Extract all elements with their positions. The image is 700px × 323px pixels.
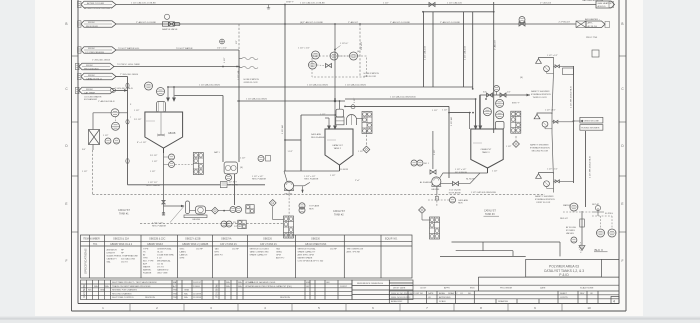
svg-text:REFERENCE DRAWINGS: REFERENCE DRAWINGS bbox=[357, 282, 384, 285]
svg-text:2"-AB-107-1.0 BLBK: 2"-AB-107-1.0 BLBK bbox=[136, 21, 157, 24]
svg-text:FROM: FROM bbox=[88, 75, 95, 77]
svg-text:APPROVED: APPROVED bbox=[439, 296, 451, 299]
svg-text:GASKETED: GASKETED bbox=[157, 269, 169, 272]
svg-text:HOSE STATION: HOSE STATION bbox=[244, 78, 260, 81]
svg-text:3/4"x1/2": 3/4"x1/2" bbox=[361, 41, 363, 50]
svg-text:REG. FLANGE: REG. FLANGE bbox=[146, 184, 161, 187]
svg-text:SPARE CAPACITY: SPARE CAPACITY bbox=[250, 254, 268, 257]
svg-text:WATER: WATER bbox=[143, 266, 151, 269]
svg-text:150 TO: 150 TO bbox=[121, 262, 128, 264]
svg-text:NO FLANGE: NO FLANGE bbox=[449, 192, 462, 195]
svg-text:10: 10 bbox=[587, 306, 591, 310]
svg-text:2"-AB-107-1.0 BLBK: 2"-AB-107-1.0 BLBK bbox=[390, 21, 411, 24]
svg-text:REVISION: REVISION bbox=[280, 297, 290, 299]
svg-text:AT WING W3 LINE: AT WING W3 LINE bbox=[581, 119, 599, 122]
svg-text:FROM: FROM bbox=[86, 65, 93, 67]
svg-text:BLK. TYPE: BLK. TYPE bbox=[143, 261, 154, 263]
svg-text:BY PASS: BY PASS bbox=[566, 229, 575, 232]
svg-text:1 1/2" x 1/2": 1 1/2" x 1/2" bbox=[298, 47, 310, 49]
svg-text:1 1/2"-AB-104-1SB-N1500: 1 1/2"-AB-104-1SB-N1500 bbox=[390, 96, 416, 99]
svg-text:DRAW BY: DRAW BY bbox=[448, 292, 458, 295]
svg-text:N/A: N/A bbox=[184, 292, 188, 295]
svg-text:150 HP: 150 HP bbox=[232, 249, 240, 251]
svg-text:N/A: N/A bbox=[226, 281, 230, 284]
svg-text:VALVES: VALVES bbox=[566, 232, 574, 235]
svg-text:CONT'D: CONT'D bbox=[560, 297, 568, 299]
svg-text:1/2": 1/2" bbox=[507, 91, 511, 93]
svg-text:AIR HEATER +: AIR HEATER + bbox=[585, 18, 601, 21]
svg-text:TMS: TMS bbox=[173, 290, 178, 292]
svg-text:AGITATOR: AGITATOR bbox=[107, 249, 118, 252]
svg-text:SERVICE TK2/GAL: SERVICE TK2/GAL bbox=[298, 248, 317, 251]
svg-text:CO: CO bbox=[460, 293, 464, 295]
svg-text:GB02B: GB02B bbox=[168, 133, 176, 135]
svg-text:1/2 AB RISE MPA: 1/2 AB RISE MPA bbox=[157, 254, 174, 257]
svg-text:GB0226: GB0226 bbox=[263, 238, 272, 241]
svg-text:4: 4 bbox=[613, 299, 615, 303]
svg-text:EXCHANGER: EXCHANGER bbox=[84, 98, 98, 101]
svg-text:GRND FLOOR: GRND FLOOR bbox=[244, 82, 258, 84]
svg-text:REVISION: REVISION bbox=[214, 285, 218, 298]
svg-text:LABELS: LABELS bbox=[180, 254, 188, 257]
svg-text:1/2": 1/2" bbox=[236, 40, 238, 44]
svg-text:CAPACITY: CAPACITY bbox=[107, 258, 118, 261]
svg-text:ANTI FO: ANTI FO bbox=[215, 254, 224, 257]
svg-text:DATE: DATE bbox=[540, 287, 546, 290]
svg-text:1 1/2": 1 1/2" bbox=[82, 171, 88, 173]
svg-text:SAFETY SHOWER/: SAFETY SHOWER/ bbox=[530, 143, 549, 146]
svg-text:EYEWASH STATION: EYEWASH STATION bbox=[531, 93, 551, 96]
svg-text:1 1/2"-AB: 1 1/2"-AB bbox=[281, 125, 284, 134]
svg-text:GAS HEATER A LINE: GAS HEATER A LINE bbox=[582, 0, 604, 2]
svg-text:(E): (E) bbox=[357, 51, 360, 53]
svg-text:EYEWASH STATION: EYEWASH STATION bbox=[530, 146, 550, 149]
svg-text:1 1/2"-AB: 1 1/2"-AB bbox=[237, 70, 240, 80]
svg-text:SAFETY SHOWER/: SAFETY SHOWER/ bbox=[531, 90, 550, 93]
svg-text:P-1 1/2": P-1 1/2" bbox=[134, 119, 142, 121]
svg-text:1 1/2" x 1/2": 1 1/2" x 1/2" bbox=[152, 223, 163, 225]
svg-text:GB02B6: GB02B6 bbox=[431, 189, 440, 191]
svg-text:THE OVERFLOW: THE OVERFLOW bbox=[347, 249, 364, 251]
svg-text:SHEET: SHEET bbox=[560, 293, 568, 295]
svg-text:11/13/98: 11/13/98 bbox=[193, 297, 202, 299]
svg-text:SAFETY SHOWER/: SAFETY SHOWER/ bbox=[535, 195, 554, 198]
svg-text:FROM: FROM bbox=[86, 89, 93, 91]
svg-text:TANK CONNECTED: TANK CONNECTED bbox=[250, 251, 270, 254]
svg-text:REG. FLANGE: REG. FLANGE bbox=[252, 177, 267, 180]
svg-text:EYEWASH STATION: EYEWASH STATION bbox=[535, 198, 555, 201]
svg-text:UPDATED AS NOTED PIPING & CATA: UPDATED AS NOTED PIPING & CATALYST (P&I) bbox=[245, 285, 292, 288]
svg-text:BARREL: BARREL bbox=[143, 269, 152, 272]
svg-text:N/A: N/A bbox=[184, 296, 188, 299]
svg-text:2"-AB-107-1.0 BLBK: 2"-AB-107-1.0 BLBK bbox=[440, 21, 461, 24]
svg-text:N/A: N/A bbox=[94, 285, 98, 288]
svg-text:ANTI. TPS RE: ANTI. TPS RE bbox=[347, 251, 361, 254]
svg-text:NO FLANGE: NO FLANGE bbox=[455, 171, 468, 174]
svg-text:N/A: N/A bbox=[238, 281, 242, 284]
svg-text:1 1/2"-AB-104-1SB-N: 1 1/2"-AB-104-1SB-N bbox=[307, 83, 328, 86]
svg-text:GB022B & 22C: GB022B & 22C bbox=[149, 238, 166, 241]
svg-text:AT FLUSH: AT FLUSH bbox=[566, 226, 576, 229]
svg-text:GLASS PRESS. TEMPERATURE: GLASS PRESS. TEMPERATURE bbox=[107, 255, 139, 258]
svg-text:TMS: TMS bbox=[173, 293, 178, 295]
svg-text:GPM: GPM bbox=[180, 258, 185, 260]
svg-text:APPR: APPR bbox=[444, 287, 450, 290]
svg-text:1 1/2"-AB-106-1SB-N: 1 1/2"-AB-106-1SB-N bbox=[199, 83, 220, 86]
svg-text:AFTER COOLER: AFTER COOLER bbox=[87, 2, 104, 5]
svg-text:2"-AB-107: 2"-AB-107 bbox=[348, 21, 359, 24]
svg-text:7"-WG-300-1SB-N: 7"-WG-300-1SB-N bbox=[115, 88, 133, 90]
svg-text:A BLDG: A BLDG bbox=[598, 5, 606, 8]
svg-text:WATER: WATER bbox=[563, 204, 571, 207]
svg-text:150 HP: 150 HP bbox=[330, 249, 338, 251]
svg-text:150 HP: 150 HP bbox=[196, 249, 204, 251]
svg-text:GMA: GMA bbox=[184, 289, 189, 292]
svg-text:1"-AB-106-1SB-N: 1"-AB-106-1SB-N bbox=[98, 100, 115, 103]
svg-text:DWG. NO/CON RVC: DWG. NO/CON RVC bbox=[391, 297, 411, 299]
svg-text:2/14/00: 2/14/00 bbox=[193, 286, 201, 288]
svg-text:2"-AB-107-1.0 BLBK: 2"-AB-107-1.0 BLBK bbox=[303, 21, 324, 24]
svg-text:REG. FLANGE: REG. FLANGE bbox=[152, 224, 167, 227]
svg-text:THIRD FLOOR: THIRD FLOOR bbox=[533, 97, 548, 99]
svg-text:N/S: N/S bbox=[88, 290, 92, 292]
svg-text:CATALYST: CATALYST bbox=[332, 144, 343, 147]
svg-text:HDR: HDR bbox=[458, 203, 463, 205]
svg-text:60 PSIG: 60 PSIG bbox=[605, 213, 613, 215]
svg-text:AC BLDG: AC BLDG bbox=[588, 25, 598, 28]
svg-text:TANK #1: TANK #1 bbox=[119, 212, 129, 215]
svg-text:CAT 2 TANK #1: CAT 2 TANK #1 bbox=[220, 243, 237, 246]
svg-text:GB02B TANK #1 & 2: GB02B TANK #1 & 2 bbox=[110, 243, 133, 246]
svg-text:TO PROC. HDG. TANK: TO PROC. HDG. TANK bbox=[117, 63, 140, 66]
svg-text:TK1: TK1 bbox=[93, 243, 98, 246]
svg-text:CK BY: CK BY bbox=[420, 288, 427, 290]
svg-text:DATE: DATE bbox=[428, 292, 434, 295]
svg-text:GB02B TANK 2 | GB02B: GB02B TANK 2 | GB02B bbox=[182, 243, 209, 246]
svg-text:FROM: FROM bbox=[88, 48, 95, 50]
svg-text:1 1/2": 1 1/2" bbox=[330, 175, 336, 177]
svg-text:FIRST FLOOR: FIRST FLOOR bbox=[537, 202, 551, 204]
svg-text:SCALE: SCALE bbox=[439, 300, 446, 303]
svg-text:BTM "Y": BTM "Y" bbox=[512, 103, 520, 105]
svg-text:CA FLARE: CA FLARE bbox=[458, 199, 469, 202]
svg-text:RE BOILER: RE BOILER bbox=[86, 26, 98, 28]
svg-text:1/4" x 1/2": 1/4" x 1/2" bbox=[217, 47, 227, 49]
svg-text:BTM "Y": BTM "Y" bbox=[286, 1, 294, 3]
svg-text:1 1/2": 1 1/2" bbox=[320, 114, 326, 116]
svg-text:1 1/2": 1 1/2" bbox=[383, 2, 389, 4]
svg-text:1 1/2"x1": 1 1/2"x1" bbox=[340, 43, 349, 45]
svg-text:TANK #3: TANK #3 bbox=[485, 213, 495, 216]
svg-text:TAG: TAG bbox=[215, 248, 220, 251]
svg-text:GM: GM bbox=[326, 282, 330, 284]
svg-text:1 1/2" x 1/2": 1 1/2" x 1/2" bbox=[547, 169, 558, 171]
svg-text:COG GP AVG A GP TO 300: COG GP AVG A GP TO 300 bbox=[298, 260, 325, 263]
svg-text:2"-PVB-107: 2"-PVB-107 bbox=[559, 21, 571, 23]
svg-text:PROC TNK: PROC TNK bbox=[586, 37, 598, 39]
svg-text:1 1/2"-CAT-105: 1 1/2"-CAT-105 bbox=[447, 1, 463, 4]
svg-text:TYPE: TYPE bbox=[143, 249, 149, 251]
svg-text:SHUT DWN CONTROL: SHUT DWN CONTROL bbox=[112, 297, 135, 299]
svg-text:1 1/2"-CAT-105-1.5 BLBK: 1 1/2"-CAT-105-1.5 BLBK bbox=[131, 1, 156, 4]
svg-text:1 1/2" 1/2": 1 1/2" 1/2" bbox=[148, 182, 158, 184]
svg-text:GMC: GMC bbox=[180, 249, 185, 251]
svg-text:AREA 03/02: AREA 03/02 bbox=[391, 300, 403, 303]
svg-text:RED HT: RED HT bbox=[560, 218, 568, 220]
svg-text:(E): (E) bbox=[240, 167, 243, 169]
svg-text:1 1/2": 1 1/2" bbox=[434, 149, 436, 155]
svg-text:GB023YA: GB023YA bbox=[221, 238, 232, 241]
svg-text:TO FLARE: TO FLARE bbox=[309, 205, 320, 208]
svg-text:TO HOT WATER H.B.: TO HOT WATER H.B. bbox=[118, 47, 140, 50]
svg-text:TMS: TMS bbox=[173, 297, 178, 299]
svg-text:(E): (E) bbox=[520, 77, 523, 79]
svg-text:TO HOT WATER: TO HOT WATER bbox=[176, 47, 193, 50]
svg-text:NAT 1: NAT 1 bbox=[214, 151, 221, 154]
svg-text:1 1/2": 1 1/2" bbox=[240, 158, 246, 160]
svg-text:CAT 2 TANK #1: CAT 2 TANK #1 bbox=[260, 243, 277, 246]
svg-text:REG. FLANGE: REG. FLANGE bbox=[304, 177, 319, 180]
svg-text:P-1 1/2": P-1 1/2" bbox=[150, 155, 158, 157]
svg-text:AREA: AREA bbox=[439, 292, 445, 295]
svg-text:1 1/2"-AB: 1 1/2"-AB bbox=[450, 117, 453, 126]
svg-text:AFTL: AFTL bbox=[588, 22, 594, 25]
svg-text:1 1/2": 1 1/2" bbox=[506, 146, 512, 148]
svg-text:GMA: GMA bbox=[100, 289, 105, 292]
svg-text:3/4": 3/4" bbox=[82, 149, 86, 151]
svg-text:AT 15 PSI: AT 15 PSI bbox=[229, 183, 239, 186]
svg-text:500 GALLONS: 500 GALLONS bbox=[121, 258, 135, 261]
svg-text:SECOND FLOOR: SECOND FLOOR bbox=[532, 150, 549, 152]
svg-text:8" x 1 1/2": 8" x 1 1/2" bbox=[137, 142, 147, 144]
svg-text:1 1/2": 1 1/2" bbox=[150, 171, 156, 173]
svg-text:FROM: FROM bbox=[88, 22, 95, 24]
svg-text:1 1/2"-AB-104: 1 1/2"-AB-104 bbox=[464, 46, 467, 60]
svg-text:WATER SPARE: WATER SPARE bbox=[298, 257, 313, 260]
svg-text:ONLY ONE: ONLY ONE bbox=[157, 273, 168, 275]
svg-text:DR BY DATE: DR BY DATE bbox=[393, 287, 406, 290]
svg-text:E: E bbox=[65, 202, 67, 206]
svg-text:3/4": 3/4" bbox=[483, 91, 487, 93]
svg-text:11/13/98: 11/13/98 bbox=[193, 293, 202, 295]
svg-text:1 1/2": 1 1/2" bbox=[103, 135, 109, 137]
svg-text:TANK 2: TANK 2 bbox=[334, 147, 342, 150]
svg-text:NO 1: NO 1 bbox=[424, 163, 430, 165]
svg-text:1 1/2": 1 1/2" bbox=[224, 57, 226, 63]
svg-text:HOSING SHOWER: HOSING SHOWER bbox=[581, 128, 600, 130]
svg-text:ANTI SPEC GPM: ANTI SPEC GPM bbox=[298, 254, 315, 257]
svg-text:TPM: TPM bbox=[143, 258, 148, 260]
svg-text:GB0230: GB0230 bbox=[311, 238, 320, 241]
svg-text:HOSE STATION: HOSE STATION bbox=[364, 72, 380, 75]
svg-text:TAG: TAG bbox=[276, 248, 281, 251]
svg-text:1 1/2" x 1/2": 1 1/2" x 1/2" bbox=[547, 55, 558, 57]
svg-text:CO 30: CO 30 bbox=[157, 264, 164, 266]
svg-text:N/A: N/A bbox=[238, 285, 242, 288]
svg-text:SPECIFICATIONS: SPECIFICATIONS bbox=[84, 248, 88, 274]
svg-text:1 1/2"-AB-104: 1 1/2"-AB-104 bbox=[424, 46, 427, 60]
svg-text:HDR: HDR bbox=[309, 208, 314, 210]
svg-text:GB02B TANK3: GB02B TANK3 bbox=[147, 243, 164, 246]
svg-text:MSK: MSK bbox=[306, 282, 311, 284]
svg-text:EQUIP. NO.: EQUIP. NO. bbox=[385, 238, 398, 241]
svg-text:1 1/2": 1 1/2" bbox=[358, 151, 364, 153]
svg-text:BLK X: BLK X bbox=[595, 248, 604, 252]
svg-text:COOLING WATER: COOLING WATER bbox=[84, 96, 102, 99]
svg-text:DRAWING: DRAWING bbox=[498, 300, 508, 303]
svg-text:SHUT TANK PROJECT - TEST VALVE: SHUT TANK PROJECT - TEST VALVE REVIEW bbox=[112, 281, 157, 284]
svg-text:ENG: ENG bbox=[470, 288, 475, 290]
svg-text:1 1/2": 1 1/2" bbox=[134, 110, 140, 112]
svg-text:175 TO: 175 TO bbox=[157, 267, 164, 269]
svg-text:1 1/2"-WF-0306-1SB-N: 1 1/2"-WF-0306-1SB-N bbox=[571, 86, 573, 108]
svg-text:SCALE NONE: SCALE NONE bbox=[580, 287, 594, 290]
svg-text:SPARE CAPACITY: SPARE CAPACITY bbox=[298, 251, 316, 254]
svg-text:GAS HEATER: GAS HEATER bbox=[598, 2, 612, 5]
svg-text:10/9/97: 10/9/97 bbox=[340, 286, 348, 288]
svg-text:1 1/2": 1 1/2" bbox=[442, 110, 448, 112]
svg-text:PROCESSING: PROCESSING bbox=[84, 68, 99, 70]
svg-text:REV: REV bbox=[580, 293, 585, 295]
svg-text:1"-WG-300-1SB-N: 1"-WG-300-1SB-N bbox=[92, 59, 110, 61]
svg-text:1 1/2": 1 1/2" bbox=[288, 151, 294, 153]
svg-text:10/12/97: 10/12/97 bbox=[193, 282, 202, 284]
svg-text:F: F bbox=[622, 259, 624, 263]
svg-text:TANK 3: TANK 3 bbox=[482, 151, 490, 154]
svg-text:MECHANICAL: MECHANICAL bbox=[157, 260, 171, 263]
svg-text:C.T. PROCESSING: C.T. PROCESSING bbox=[85, 52, 104, 54]
svg-text:B: B bbox=[621, 22, 623, 26]
svg-text:REG FLANGE: REG FLANGE bbox=[311, 136, 325, 139]
svg-text:CATALYST: CATALYST bbox=[481, 148, 492, 151]
svg-text:2"-AB-107: 2"-AB-107 bbox=[494, 39, 497, 50]
svg-text:1 1/2": 1 1/2" bbox=[354, 97, 356, 103]
svg-text:N/A: N/A bbox=[226, 285, 230, 288]
svg-text:1 1/2"-CAT-105-1.5 BLBK: 1 1/2"-CAT-105-1.5 BLBK bbox=[300, 1, 325, 4]
svg-text:1/2" SET: 1/2" SET bbox=[229, 182, 238, 184]
svg-text:TRACE ON VENT TANK AND PROCESS: TRACE ON VENT TANK AND PROCESS bbox=[112, 285, 151, 288]
svg-text:PROJ ENGR: PROJ ENGR bbox=[500, 288, 513, 290]
svg-text:SAMPLE VALVE: SAMPLE VALVE bbox=[162, 28, 178, 31]
svg-text:NPS: NPS bbox=[215, 252, 220, 254]
svg-text:GPM: GPM bbox=[276, 255, 281, 257]
svg-text:1 1/2" x 1/2": 1 1/2" x 1/2" bbox=[545, 110, 556, 112]
svg-text:GB 02 CHEM TANK: GB 02 CHEM TANK bbox=[305, 243, 327, 246]
svg-text:N/A: N/A bbox=[105, 285, 109, 288]
svg-text:REVISED FOR CHANGES: REVISED FOR CHANGES bbox=[112, 289, 138, 292]
svg-text:CATALYST M.U.: CATALYST M.U. bbox=[86, 77, 102, 80]
svg-text:1 1/2"-AB-104-1SB-N: 1 1/2"-AB-104-1SB-N bbox=[246, 98, 267, 101]
svg-text:1 1/2": 1 1/2" bbox=[152, 161, 158, 163]
svg-text:REVISION: REVISION bbox=[145, 297, 155, 299]
svg-text:ANTI FO: ANTI FO bbox=[276, 257, 285, 260]
svg-text:E: E bbox=[621, 202, 623, 206]
svg-text:10 NOW: 10 NOW bbox=[340, 169, 348, 171]
svg-text:CENTRIFUGAL: CENTRIFUGAL bbox=[157, 248, 173, 251]
svg-text:SET AT: SET AT bbox=[592, 203, 600, 206]
svg-text:A.T.: A.T. bbox=[173, 285, 177, 288]
svg-text:GB02B4: GB02B4 bbox=[192, 219, 201, 221]
svg-text:GB022Y &22B: GB022Y &22B bbox=[185, 238, 201, 241]
svg-text:1 1/2"-AB-104-1SB-N: 1 1/2"-AB-104-1SB-N bbox=[345, 83, 366, 86]
svg-text:LABEL: LABEL bbox=[180, 251, 187, 254]
svg-text:AL FLANGE: AL FLANGE bbox=[420, 181, 432, 184]
svg-text:7"-WG-300-1SB-N: 7"-WG-300-1SB-N bbox=[120, 74, 138, 76]
svg-text:1 1/2": 1 1/2" bbox=[432, 110, 438, 112]
svg-text:LENGTH: LENGTH bbox=[107, 253, 116, 255]
svg-text:2"x1": 2"x1" bbox=[355, 180, 360, 182]
svg-text:1 1/2" x 1/2": 1 1/2" x 1/2" bbox=[455, 169, 466, 171]
svg-text:GB0225 & 22A: GB0225 & 22A bbox=[113, 238, 129, 241]
svg-text:REVISION: REVISION bbox=[82, 285, 86, 298]
svg-text:JM: JM bbox=[306, 286, 309, 288]
svg-text:P & ID: P & ID bbox=[559, 273, 569, 277]
svg-text:MAT: MAT bbox=[173, 281, 178, 284]
svg-text:TANK #2: TANK #2 bbox=[334, 213, 344, 216]
svg-text:FLANGE: FLANGE bbox=[143, 272, 152, 275]
svg-text:CAT. PREP: CAT. PREP bbox=[84, 91, 96, 94]
svg-text:AFTERCOOLER CHILLER 2: AFTERCOOLER CHILLER 2 bbox=[84, 7, 113, 10]
svg-text:AXP: AXP bbox=[143, 263, 148, 266]
svg-text:DA FLARE: DA FLARE bbox=[311, 133, 322, 136]
svg-text:RECORD DRAWING: RECORD DRAWING bbox=[112, 292, 132, 295]
svg-text:DWG SC NO PROJ NO CONT N: DWG SC NO PROJ NO CONT NO bbox=[391, 293, 424, 295]
svg-text:GRD FLOOR: GRD FLOOR bbox=[364, 76, 377, 78]
svg-text:1 1/2 LIQUID: 1 1/2 LIQUID bbox=[449, 190, 462, 192]
svg-text:GL-50: GL-50 bbox=[157, 252, 164, 254]
svg-text:1 1/2": 1 1/2" bbox=[492, 171, 498, 173]
svg-text:NL NOW: NL NOW bbox=[466, 179, 474, 181]
svg-text:GB02B5: GB02B5 bbox=[284, 193, 293, 195]
svg-text:SERVICE COOLING: SERVICE COOLING bbox=[250, 249, 270, 251]
svg-text:1 1/2"-CAT-103-1SB-N1SB: 1 1/2"-CAT-103-1SB-N1SB bbox=[471, 191, 496, 194]
svg-text:B: B bbox=[65, 22, 67, 26]
svg-text:1 1/2"-WF-0306-1SB-N: 1 1/2"-WF-0306-1SB-N bbox=[590, 156, 592, 178]
svg-text:2" CAT-105: 2" CAT-105 bbox=[540, 1, 552, 4]
svg-text:F: F bbox=[66, 259, 68, 263]
svg-text:1/2" SET: 1/2" SET bbox=[234, 226, 243, 228]
svg-text:UPDATE FOR GA VALVE CHGS: UPDATE FOR GA VALVE CHGS bbox=[245, 281, 276, 284]
svg-text:GMNL: GMNL bbox=[276, 252, 283, 254]
svg-text:ITEM NUMBER: ITEM NUMBER bbox=[83, 238, 100, 241]
